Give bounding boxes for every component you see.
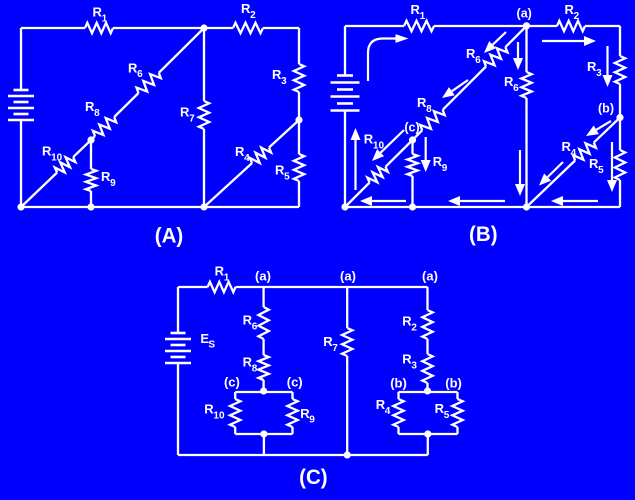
resistor R3 (A) — [294, 64, 304, 92]
svg-text:4: 4 — [571, 148, 577, 159]
battery source Es (C) — [171, 332, 186, 335]
resistor R9 (C) — [287, 399, 297, 427]
current arrow left bottom-middle (B) — [460, 200, 505, 202]
wire B diagonal R10 lower part — [345, 183, 370, 208]
wire C box2 right stub bottom — [456, 427, 458, 434]
current arrow down mid vertical lower (B) — [519, 150, 521, 184]
wire A right edge lower — [298, 181, 300, 207]
svg-text:8: 8 — [252, 364, 258, 375]
svg-text:2: 2 — [574, 11, 580, 22]
wire B top-right segment — [585, 25, 620, 27]
resistor R3 (C) — [422, 354, 432, 383]
wire C box2 top — [399, 391, 458, 393]
wire C box2 left stub bottom — [397, 427, 399, 434]
current arrow down beside R9 (B) — [425, 137, 427, 160]
resistor R2 (C) — [422, 310, 432, 339]
wire A diagonal J to R8 — [91, 136, 95, 140]
current arrow left bottom-left (B) — [372, 200, 406, 202]
wire C box1 right stub bottom — [291, 427, 293, 434]
wire A R9 stub upper — [90, 140, 92, 169]
svg-text:8: 8 — [94, 108, 100, 119]
current arrow curved top-left (B) — [368, 39, 397, 82]
resistor R8 (C) — [258, 355, 268, 380]
wire B bottom — [345, 206, 620, 208]
wire A diagonal R4 upper part — [269, 120, 299, 148]
resistor R2 (A) — [233, 23, 263, 33]
wire B diagonal R4 upper part — [594, 118, 620, 143]
svg-text:(C): (C) — [299, 466, 328, 489]
wire A right edge upper — [298, 28, 300, 64]
resistor R5 (B) — [615, 150, 625, 180]
node B b — [616, 114, 623, 121]
wire B diagonal R8 to R6 — [443, 67, 486, 110]
svg-text:7: 7 — [189, 113, 195, 124]
wire A R9 stub lower — [90, 191, 92, 207]
wire C branch1 mid stub — [262, 339, 264, 355]
svg-text:3: 3 — [411, 360, 417, 371]
wire C top-left segment — [178, 286, 208, 288]
wire A right edge mid — [298, 92, 300, 154]
resistor R4 (A) — [250, 148, 271, 164]
wire A top-right segment — [263, 27, 299, 29]
wire A left edge below battery — [20, 120, 22, 207]
svg-text:9: 9 — [110, 178, 116, 189]
resistor R6 (C) — [258, 307, 268, 339]
wire B top middle segment — [434, 25, 557, 27]
wire B mid vertical upper — [525, 26, 527, 72]
svg-text:3: 3 — [281, 76, 287, 87]
svg-text:(c): (c) — [287, 375, 303, 390]
svg-text:9: 9 — [309, 415, 315, 426]
current arrow diagonal R4 upper (B) — [596, 121, 611, 130]
svg-text:6: 6 — [475, 55, 481, 66]
node A bottom R9 — [87, 203, 94, 210]
resistor R1 (C) — [208, 282, 236, 292]
resistor R6 vertical (B) — [521, 72, 531, 98]
current arrow down right of R5 (B) — [611, 142, 613, 180]
svg-text:5: 5 — [284, 171, 290, 182]
svg-text:6: 6 — [137, 69, 143, 80]
node C c — [260, 387, 267, 394]
node C b — [424, 387, 431, 394]
node C R7 bottom — [344, 451, 351, 458]
svg-text:3: 3 — [596, 68, 602, 79]
svg-text:9: 9 — [442, 163, 448, 174]
svg-text:(b): (b) — [390, 375, 407, 390]
resistor R7 (C) — [342, 328, 352, 356]
wire B mid vertical lower — [525, 98, 527, 207]
wire C branch3 mid stub — [426, 339, 428, 354]
svg-text:2: 2 — [250, 10, 256, 21]
wire B diagonal c to R8 — [413, 130, 423, 140]
wire C box1 to bottom wire — [263, 434, 265, 455]
wire B left edge above battery — [344, 26, 346, 76]
resistor R5 (A) — [294, 154, 304, 181]
wire C branch3 upper stub — [426, 287, 428, 310]
svg-text:10: 10 — [51, 152, 63, 163]
wire C R7 branch upper — [346, 287, 348, 328]
wire C box1 left stub bottom — [234, 427, 236, 434]
svg-text:(b): (b) — [598, 102, 614, 116]
svg-text:6: 6 — [513, 83, 519, 94]
wire A diagonal R10 upper part — [73, 140, 91, 157]
wire C branch1 upper stub — [262, 287, 264, 307]
resistor R10 (A) — [55, 157, 76, 172]
node C box1 bottom — [260, 430, 267, 437]
wire C left edge below battery — [177, 363, 179, 455]
svg-text:2: 2 — [411, 322, 417, 333]
wire A diagonal R10 lower part — [21, 173, 57, 208]
wire A mid vertical lower — [203, 129, 205, 207]
wire A diagonal R8 to R6 — [114, 93, 138, 117]
node B a — [523, 22, 530, 29]
current arrow left bottom-right (B) — [563, 200, 598, 202]
svg-text:1: 1 — [420, 11, 426, 22]
svg-text:(b): (b) — [445, 375, 462, 390]
node A bottom-middle — [200, 203, 207, 210]
current arrow diagonal upper a-c (B) — [493, 32, 506, 45]
svg-text:(a): (a) — [255, 269, 271, 284]
wire C box2 right stub top — [456, 392, 458, 399]
current arrow down right upper (B) — [606, 46, 608, 75]
svg-text:1: 1 — [224, 272, 230, 283]
resistor R4 (C) — [393, 399, 403, 427]
wire C branch3 lower stub — [426, 383, 428, 392]
node A top-middle — [200, 24, 207, 31]
wire B left edge below battery — [344, 111, 346, 208]
svg-text:(c): (c) — [404, 121, 419, 135]
svg-text:5: 5 — [598, 165, 604, 176]
wire C R7 branch lower — [346, 356, 348, 455]
node A right-middle — [295, 116, 302, 123]
wire A mid vertical upper — [203, 28, 205, 101]
wire C left edge above battery — [177, 287, 179, 333]
resistor R3 (B) — [615, 56, 625, 84]
resistor R10 (B) — [367, 167, 388, 183]
wire C box1 left stub top — [234, 392, 236, 399]
resistor R2 (B) — [557, 21, 585, 31]
battery source (B) — [337, 74, 353, 77]
svg-text:S: S — [208, 340, 215, 351]
wire A left edge above battery — [20, 28, 22, 90]
current arrow right top (B) — [542, 40, 584, 42]
svg-text:(B): (B) — [469, 223, 498, 246]
resistor R1 (B) — [404, 21, 434, 31]
resistor R10 (C) — [230, 399, 240, 427]
node C box2 bottom — [424, 430, 431, 437]
svg-text:(a): (a) — [422, 269, 438, 284]
node A junction J — [87, 136, 94, 143]
wire C box2 to bottom wire — [427, 434, 429, 455]
wire B R9 stub upper — [411, 140, 413, 154]
wire B top-left segment — [345, 25, 404, 27]
current arrow diagonal above R8 (B) — [452, 80, 468, 91]
svg-text:5: 5 — [444, 410, 450, 421]
node A bottom-left — [17, 203, 24, 210]
resistor R5 (C) — [452, 399, 462, 427]
current arrow down below node a (B) — [517, 42, 519, 58]
wire C box1 right stub top — [291, 392, 293, 399]
svg-text:(a): (a) — [517, 6, 532, 20]
resistor R8 (A) — [93, 117, 116, 136]
resistor R4 (B) — [573, 143, 596, 161]
node B bottom R9 — [409, 203, 416, 210]
wire B right edge mid — [619, 84, 621, 150]
wire A diagonal R4 lower part — [204, 163, 252, 207]
wire C box2 left stub top — [397, 392, 399, 399]
svg-text:(A): (A) — [155, 225, 184, 248]
resistor R7 (A) — [199, 101, 209, 129]
wire A diagonal R6 to top node — [159, 28, 204, 73]
resistor R6 (A) — [137, 73, 161, 93]
wire A top-left segment — [21, 27, 85, 29]
wire B diagonal R4 lower part — [527, 161, 576, 208]
resistor R1 (A) — [85, 23, 113, 33]
svg-text:4: 4 — [244, 153, 250, 164]
resistor R9 (A) — [86, 169, 96, 191]
svg-text:(c): (c) — [224, 375, 240, 390]
resistor R9 (B) — [407, 154, 417, 176]
battery source (A) — [14, 89, 29, 92]
wire B diagonal R10 upper part — [386, 140, 413, 167]
svg-text:8: 8 — [426, 104, 432, 115]
wire C branch1 lower stub — [262, 380, 264, 392]
svg-text:6: 6 — [252, 322, 258, 333]
wire A top middle segment — [113, 27, 233, 29]
resistor R6 diagonal (B) — [484, 47, 508, 66]
wire A bottom — [21, 206, 299, 208]
wire B right edge lower — [619, 180, 621, 207]
node B c — [409, 136, 416, 143]
svg-text:10: 10 — [213, 410, 225, 421]
wire C box2 bottom — [399, 433, 458, 435]
current arrow up left edge (B) — [354, 140, 356, 190]
svg-text:4: 4 — [385, 406, 391, 417]
wire C box1 bottom — [235, 433, 292, 435]
current arrow diagonal R4 lower (B) — [548, 162, 563, 177]
wire B R9 stub lower — [411, 176, 413, 207]
svg-text:7: 7 — [332, 343, 338, 354]
wire B diagonal R6 to node a — [505, 26, 526, 47]
current arrow diagonal R10 (B) — [381, 130, 404, 153]
wire C box1 top — [235, 391, 292, 393]
svg-text:(a): (a) — [340, 269, 356, 284]
resistor R8 (B) — [420, 110, 445, 131]
wire C top wire — [236, 286, 428, 288]
wire C bottom — [178, 454, 428, 456]
node B bottom-middle — [523, 203, 530, 210]
svg-text:1: 1 — [102, 13, 108, 24]
wire B right edge upper — [619, 26, 621, 56]
node B bottom-left — [341, 203, 348, 210]
